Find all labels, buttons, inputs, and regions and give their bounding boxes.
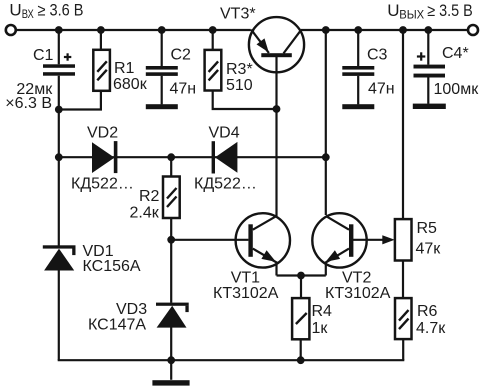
svg-text:R3*: R3*: [226, 61, 253, 78]
svg-text:510: 510: [226, 77, 253, 94]
svg-text:VT2: VT2: [342, 270, 371, 287]
svg-text:C2: C2: [171, 46, 192, 63]
svg-text:VD2: VD2: [87, 125, 118, 142]
svg-text:R5: R5: [417, 220, 438, 237]
svg-text:VD4: VD4: [209, 125, 240, 142]
svg-text:КС156А: КС156А: [83, 258, 141, 275]
svg-text:R6: R6: [417, 303, 438, 320]
svg-text:×6.3 В: ×6.3 В: [5, 95, 52, 112]
svg-text:1к: 1к: [312, 320, 329, 337]
svg-text:ВЫХ: ВЫХ: [399, 7, 424, 21]
svg-text:КТ3102А: КТ3102А: [325, 285, 391, 302]
svg-text:C1: C1: [33, 47, 54, 64]
svg-text:C3: C3: [367, 46, 388, 63]
svg-text:R1: R1: [114, 60, 135, 77]
svg-text:КД522…: КД522…: [71, 175, 134, 192]
svg-text:C4*: C4*: [442, 45, 469, 62]
svg-text:U: U: [9, 1, 21, 20]
svg-text:VD3: VD3: [116, 301, 147, 318]
svg-text:4.7к: 4.7к: [416, 320, 446, 337]
svg-text:100мк: 100мк: [434, 81, 480, 98]
svg-text:2.4к: 2.4к: [130, 205, 160, 222]
svg-text:U: U: [387, 1, 399, 20]
svg-text:VT1: VT1: [231, 270, 260, 287]
svg-text:R4: R4: [312, 303, 333, 320]
svg-text:ВХ: ВХ: [22, 7, 34, 21]
svg-text:КС147А: КС147А: [88, 317, 146, 334]
svg-text:47н: 47н: [170, 81, 197, 98]
svg-text:≥ 3.5 В: ≥ 3.5 В: [427, 2, 473, 20]
svg-text:КТ3102А: КТ3102А: [213, 285, 279, 302]
svg-text:R2: R2: [139, 188, 160, 205]
svg-text:680к: 680к: [113, 76, 148, 93]
svg-text:47к: 47к: [416, 240, 442, 257]
svg-text:47н: 47н: [368, 81, 395, 98]
svg-text:≥ 3.6 В: ≥ 3.6 В: [38, 2, 84, 20]
svg-text:КД522…: КД522…: [194, 175, 257, 192]
svg-text:VT3*: VT3*: [220, 5, 256, 22]
